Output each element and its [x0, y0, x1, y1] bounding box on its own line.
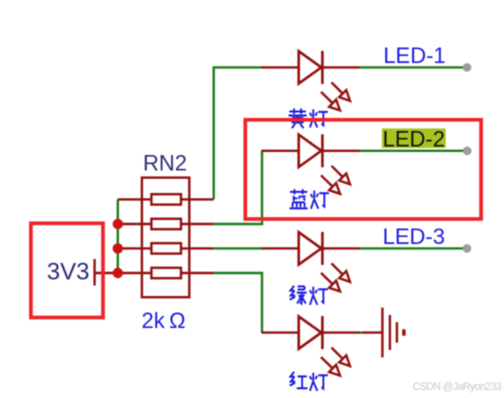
- label lvdeng (green lamp): [290, 286, 307, 304]
- wire LED-3 to terminal: [360, 247, 467, 249]
- svg-text:LED-3: LED-3: [383, 224, 445, 249]
- ground: [363, 308, 404, 358]
- wire RN2 row4 down to LED-4: [214, 273, 262, 333]
- label huangdeng (yellow lamp): [289, 108, 307, 128]
- LED D2: [262, 134, 360, 194]
- svg-text:3V3: 3V3: [47, 259, 90, 286]
- svg-text:RN2: RN2: [143, 151, 187, 176]
- annotation box around LED-2: [245, 120, 481, 219]
- wire LED-4 to ground: [360, 331, 363, 333]
- resistor RN2 element 1: [118, 194, 214, 204]
- resistor RN2 element 4: [118, 268, 214, 278]
- LED D4: [262, 316, 360, 376]
- junction dot row3: [113, 243, 123, 253]
- label landeng (blue lamp): [290, 189, 308, 208]
- LED D3: [262, 232, 360, 292]
- junction dot row2: [113, 219, 123, 229]
- wire vertical bus left of RN2: [117, 199, 119, 273]
- net label LED-2 (highlighted): [382, 127, 446, 152]
- wire LED-1 to terminal: [360, 66, 467, 68]
- wire RN2 row3 to LED-3: [214, 247, 262, 249]
- svg-text:CSDN @JaRyon233: CSDN @JaRyon233: [413, 381, 502, 393]
- wire 3V3 pin to junction: [95, 272, 118, 274]
- label hongdeng (red lamp): [290, 372, 308, 389]
- wire RN2 row2 to LED-2 riser: [214, 151, 262, 224]
- svg-text:LED-2: LED-2: [383, 127, 445, 152]
- LED D1: [262, 51, 360, 111]
- svg-text:LED-1: LED-1: [383, 43, 445, 68]
- svg-text:2k Ω: 2k Ω: [141, 308, 185, 333]
- resistor RN2 element 2: [118, 219, 214, 229]
- wire LED-2 to terminal: [360, 150, 467, 152]
- annotation box around 3V3: [31, 223, 103, 317]
- terminal dot LED-1: [463, 63, 472, 72]
- resistor network RN2 body: [142, 178, 189, 298]
- resistor RN2 element 3: [118, 243, 214, 253]
- terminal dot LED-2: [463, 147, 472, 156]
- terminal dot LED-3: [463, 244, 472, 253]
- power port 3V3: [47, 259, 95, 286]
- wire RN2 row1 up to LED-1: [214, 67, 262, 199]
- junction dot row4: [113, 268, 123, 278]
